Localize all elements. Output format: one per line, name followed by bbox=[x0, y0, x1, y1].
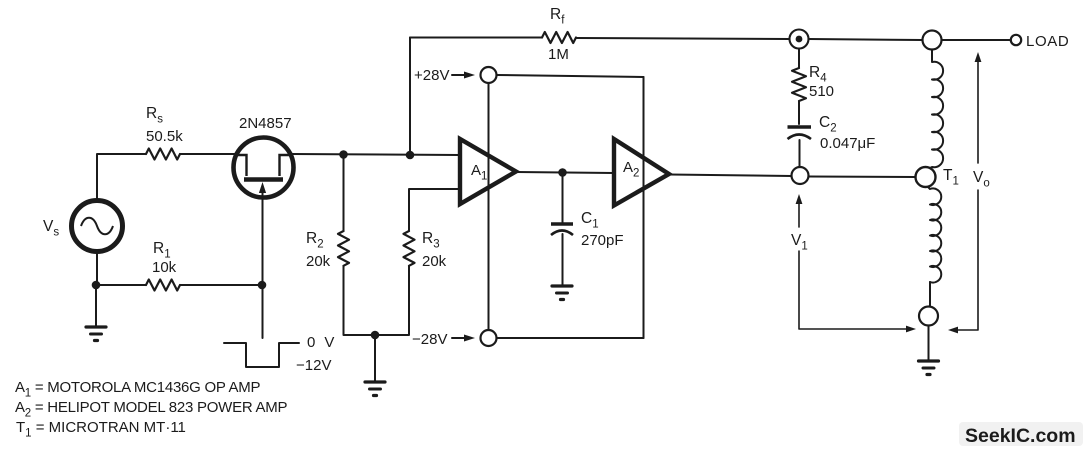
transformer T1 upper winding bbox=[929, 50, 943, 169]
wire A2 supply right vertical bbox=[643, 77, 645, 338]
wire lower terminal to ground bbox=[928, 326, 930, 362]
wire Rs to 2N4857 bbox=[180, 153, 236, 155]
node circle T1 bottom bbox=[919, 307, 938, 326]
resistor R3 20k bbox=[404, 231, 415, 266]
wire C1 stem lower bbox=[562, 234, 564, 286]
svg-text:270pF: 270pF bbox=[581, 232, 624, 249]
source Vs bbox=[72, 201, 123, 252]
arrowhead +28V bbox=[464, 72, 475, 79]
wire summing node to T1 top bbox=[809, 39, 923, 40]
arrowhead Vo up bbox=[975, 52, 982, 62]
wire R2 top from main line bbox=[343, 155, 345, 232]
wire A1 output to A2 input bbox=[516, 172, 614, 173]
wire A1 supply vertical between +28V and -28V nodes bbox=[488, 83, 490, 330]
svg-text:20k: 20k bbox=[422, 253, 447, 270]
junction dot at R1/gate bbox=[258, 281, 267, 290]
node circle -28V bbox=[481, 330, 497, 346]
ground below T1 bbox=[919, 361, 939, 375]
svg-text:−12V: −12V bbox=[296, 357, 331, 374]
svg-text:20k: 20k bbox=[306, 253, 331, 270]
ground below C1 bbox=[552, 286, 572, 300]
wire C2 to V1 node bbox=[799, 140, 801, 167]
wire R1 to gate node bbox=[180, 284, 262, 286]
arrowhead -28V bbox=[464, 335, 475, 342]
wire A2 output to V1 node bbox=[669, 175, 792, 177]
resistor Rf bbox=[542, 32, 576, 43]
svg-text:10k: 10k bbox=[152, 259, 177, 276]
transistor Q1 2N4857 bbox=[234, 138, 294, 199]
junction dot at C1 top bbox=[558, 168, 567, 177]
wire V1 measure lower segment and arrow shaft bbox=[799, 251, 907, 329]
summing node circled dot bbox=[790, 30, 809, 49]
wire feedback vertical from Rf line down to A1 input node bbox=[409, 38, 411, 156]
wire +28V circle to corner bbox=[497, 75, 644, 77]
wire Vs ground stem bbox=[95, 285, 97, 327]
junction dot at Vs/R1 bbox=[92, 281, 101, 290]
watermark background bbox=[959, 422, 1083, 446]
wire node to R1 bbox=[96, 284, 146, 286]
svg-text:2N4857: 2N4857 bbox=[239, 115, 292, 132]
resistor R2 20k bbox=[338, 231, 349, 266]
svg-text:1M: 1M bbox=[548, 46, 569, 63]
wire -28V circle to corner bbox=[497, 337, 644, 339]
svg-text:−28V: −28V bbox=[412, 331, 447, 348]
ground below R2/R3 rail bbox=[365, 382, 385, 396]
wire R2 bottom bbox=[344, 266, 376, 335]
capacitor C2 bbox=[788, 127, 812, 139]
wire R4 to C2 bbox=[798, 101, 800, 124]
resistor R4 510 bbox=[792, 68, 806, 101]
node circle V1 (A2 output) bbox=[792, 167, 809, 184]
wire ground stem below R2 R3 bbox=[374, 335, 376, 382]
wire -28V arrow shaft bbox=[452, 337, 469, 339]
resistor Rs 50.5k bbox=[146, 149, 180, 160]
arrowhead gate 2N4857 bbox=[259, 182, 266, 193]
wire 2N4857 to A1 input bbox=[291, 154, 460, 155]
wire summing node to R4 bbox=[798, 49, 800, 68]
wire V1 measure upper segment bbox=[798, 201, 800, 227]
svg-text:510: 510 bbox=[809, 83, 834, 100]
terminal circle LOAD bbox=[1011, 35, 1021, 45]
junction dot at R2 top bbox=[339, 150, 348, 159]
svg-text:LOAD: LOAD bbox=[1026, 33, 1069, 50]
wire T1 top to LOAD terminal bbox=[941, 39, 1011, 41]
op-amp A1 bbox=[460, 139, 516, 204]
ground below Vs bbox=[86, 327, 106, 341]
wire Vs top to Rs bbox=[97, 154, 146, 201]
node circle +28V bbox=[481, 67, 497, 83]
wire Vo measure upper segment bbox=[977, 61, 979, 163]
junction dot at feedback/A1 input bbox=[406, 151, 415, 160]
node circle T1 tap bbox=[916, 167, 936, 187]
svg-text:0.047μF: 0.047μF bbox=[820, 135, 875, 152]
wire Vs bottom to R1 node bbox=[96, 252, 98, 286]
wire Vo measure lower segment and arrow shaft bbox=[957, 190, 978, 330]
wire A1 inverting input to R3 bbox=[409, 189, 460, 231]
junction dot at R2/R3 ground rail bbox=[371, 331, 380, 340]
pulse waveform 0V/-12V bbox=[224, 343, 299, 367]
wire top horizontal Rf to summing node bbox=[576, 38, 789, 39]
wire gate of 2N4857 down to node and pulse input bbox=[262, 194, 264, 338]
wire +28V arrow shaft bbox=[452, 74, 469, 76]
svg-text:SeekIC.com: SeekIC.com bbox=[965, 425, 1076, 447]
arrowhead Vo left bbox=[948, 327, 958, 334]
node circle T1 top bbox=[923, 31, 942, 50]
svg-text:50.5k: 50.5k bbox=[146, 128, 183, 145]
wire winding bottom to lower terminal bbox=[929, 282, 931, 307]
power amp A2 bbox=[614, 139, 669, 206]
wire V1 node to T1 tap bbox=[809, 176, 916, 179]
resistor R1 10k bbox=[146, 280, 180, 291]
wire R3 bottom bbox=[375, 266, 409, 335]
wire top horizontal left of Rf bbox=[410, 37, 542, 39]
arrowhead V1 up bbox=[796, 194, 803, 204]
arrowhead V1 right bbox=[906, 326, 916, 333]
svg-text:+28V: +28V bbox=[414, 67, 449, 84]
capacitor C1 bbox=[551, 224, 573, 235]
wire C1 stem upper bbox=[562, 173, 564, 225]
transformer T1 lower winding bbox=[928, 187, 941, 283]
